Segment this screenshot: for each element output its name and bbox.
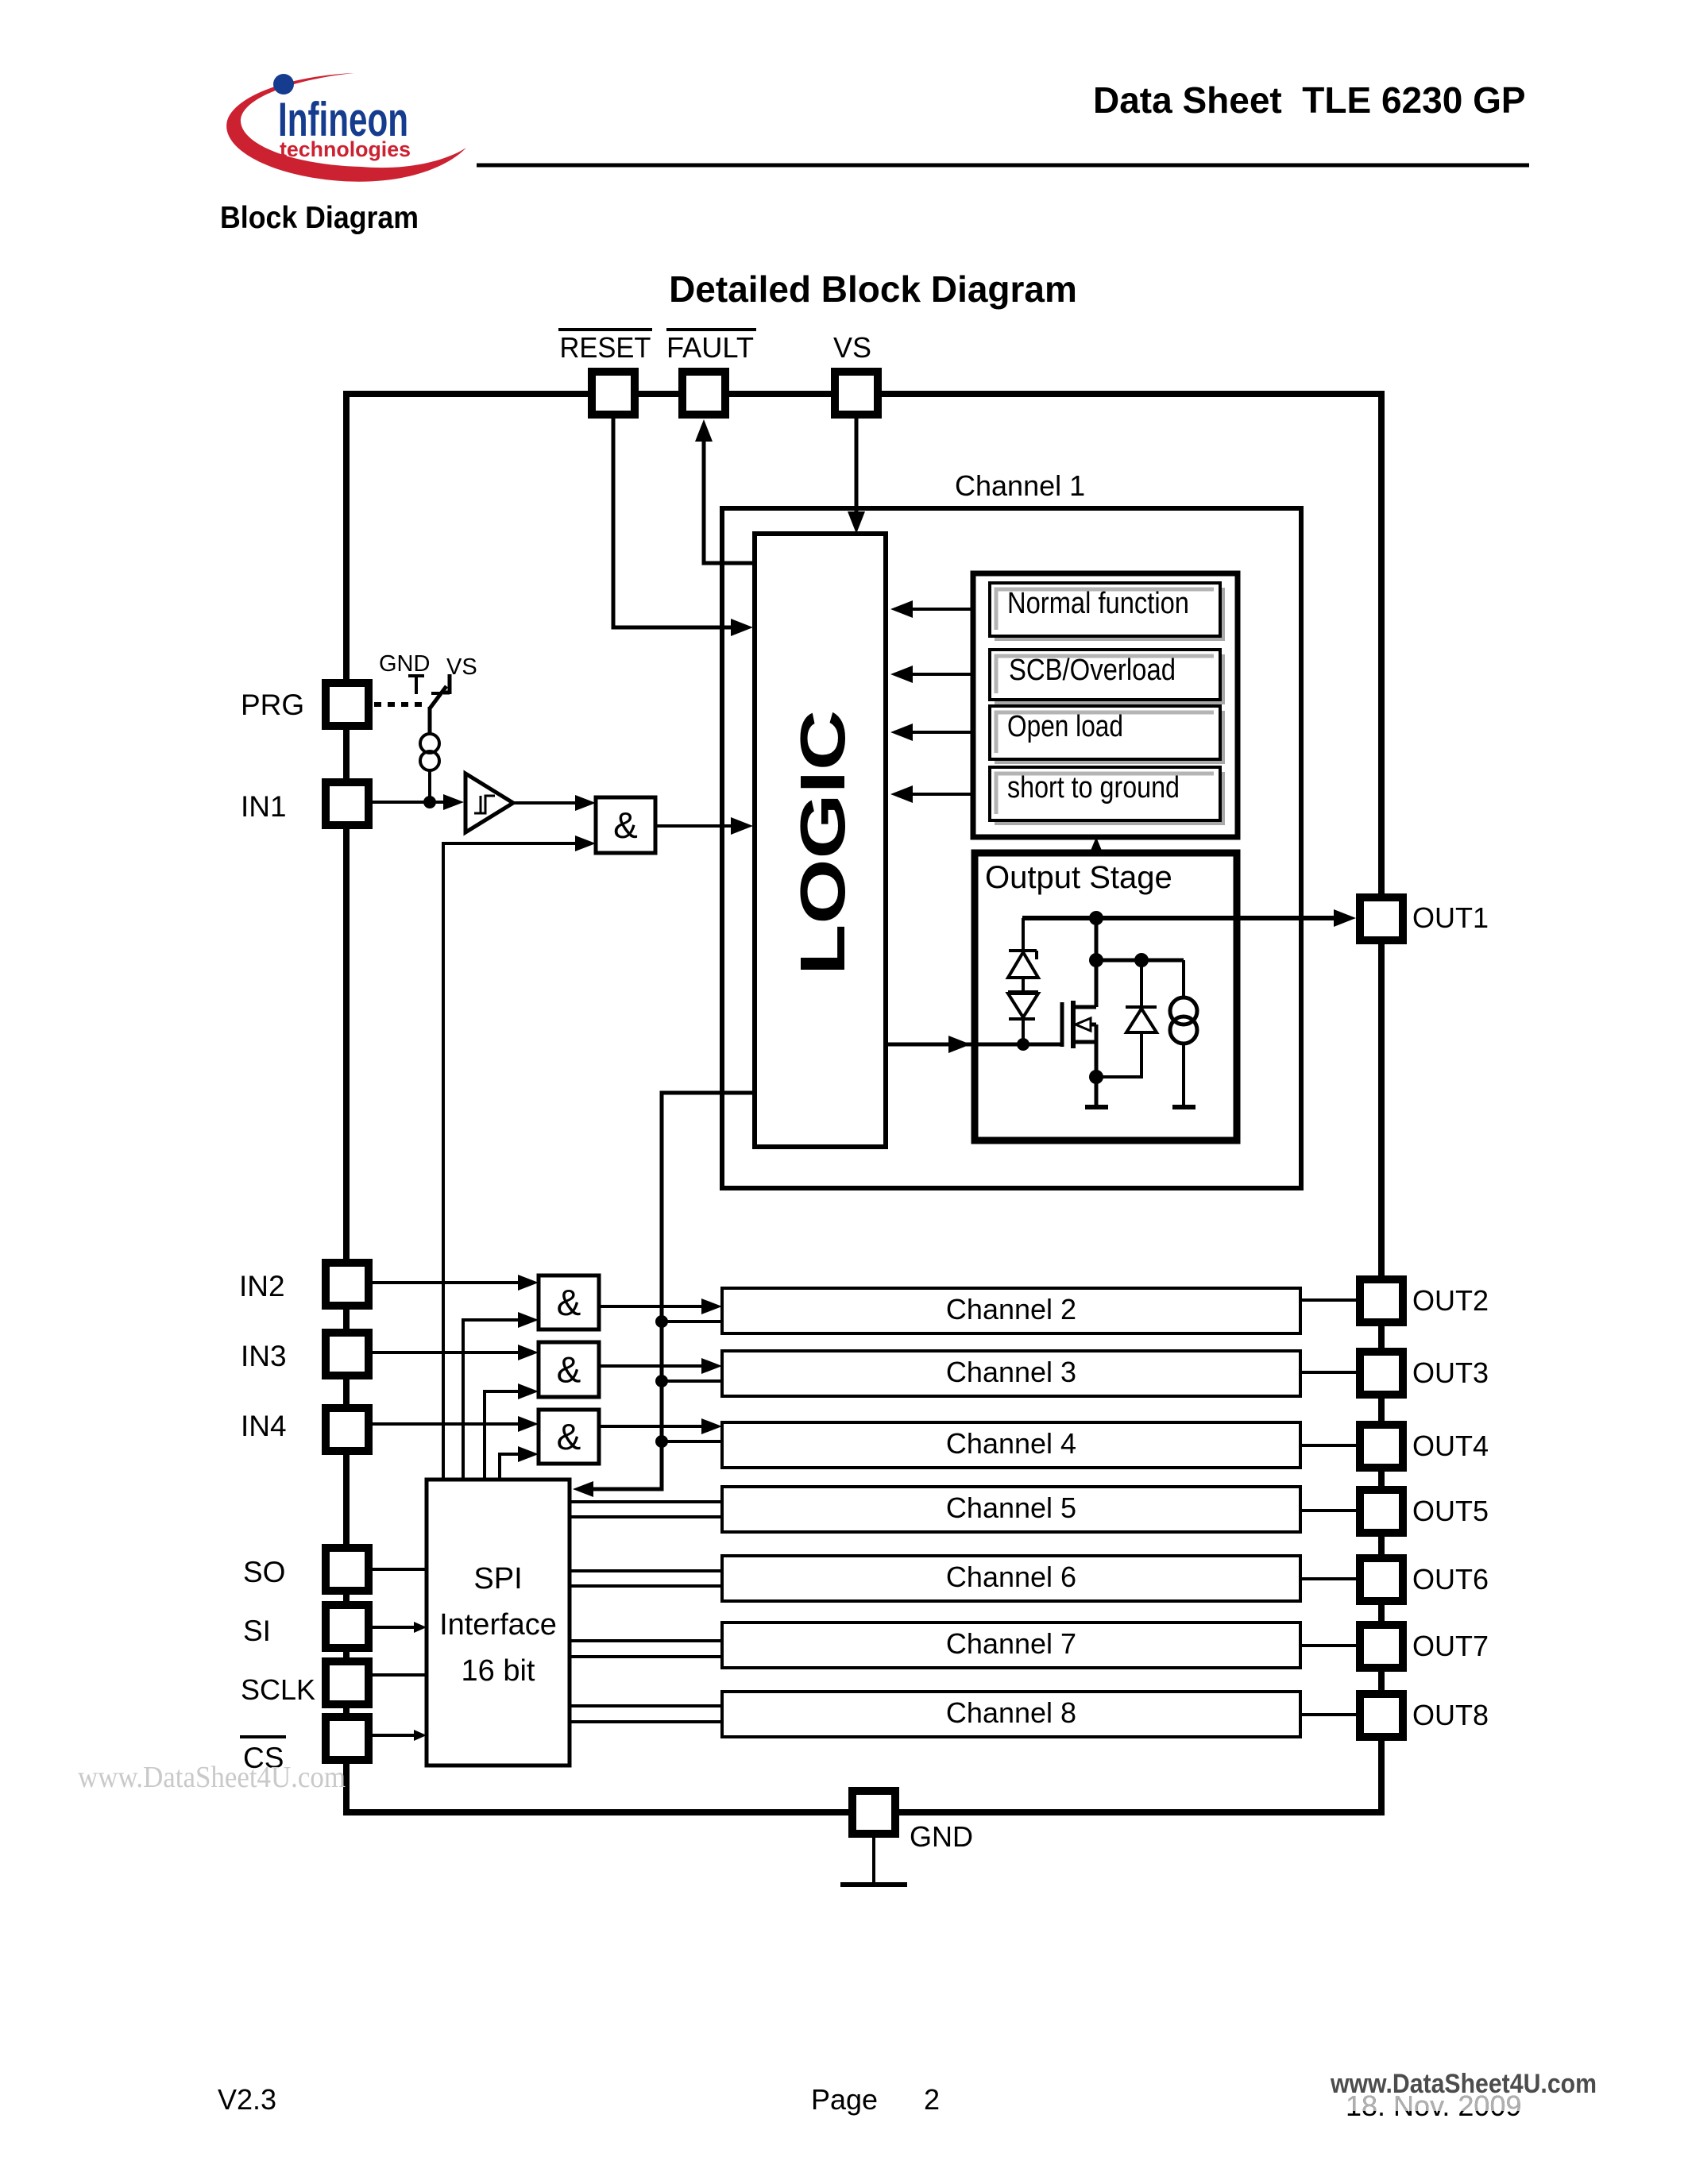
ground at current source I2	[1172, 1105, 1196, 1109]
svg-text:Detailed Block Diagram: Detailed Block Diagram	[669, 268, 1077, 310]
wire current source to ground	[1182, 1044, 1185, 1107]
pin SI	[326, 1605, 369, 1648]
Infineon logo dot	[273, 74, 294, 95]
Infineon logo swoosh	[226, 73, 466, 182]
wire SPI to Channel 8 upper	[570, 1704, 722, 1707]
svg-text:Page: Page	[811, 2083, 878, 2116]
svg-text:Block Diagram: Block Diagram	[220, 201, 419, 235]
svg-text:OUT8: OUT8	[1412, 1699, 1489, 1731]
wire diag to Channel 3	[662, 1379, 722, 1383]
wire SPI to Channel 6 lower	[570, 1584, 722, 1588]
junction rail drain	[1089, 911, 1103, 925]
svg-text:Channel 5: Channel 5	[946, 1491, 1076, 1524]
wire gate G1 to LOGIC	[655, 824, 744, 828]
junction gate zener	[1017, 1038, 1029, 1051]
svg-text:Open load: Open load	[1007, 710, 1123, 743]
pin IN4	[326, 1408, 369, 1451]
svg-text:SCB/Overload: SCB/Overload	[1009, 654, 1176, 687]
wire IN1 pin to schmitt buffer	[373, 801, 451, 804]
wire zener branch	[1022, 918, 1025, 951]
ground symbol	[840, 1882, 907, 1887]
svg-text:&: &	[557, 1416, 581, 1457]
pin SCLK	[326, 1661, 369, 1704]
wire diag to Channel 2	[662, 1320, 722, 1323]
pin PRG	[326, 683, 369, 726]
svg-text:www.DataSheet4U.com: www.DataSheet4U.com	[78, 1761, 346, 1794]
pin OUT3	[1360, 1352, 1403, 1395]
block Channel 8	[722, 1692, 1300, 1737]
wire schmitt buffer to gate G1	[513, 801, 586, 805]
wire status Open load to LOGIC	[913, 731, 973, 734]
wire Channel 3 to OUT3	[1300, 1371, 1356, 1374]
transistor Q1 gate bar	[1060, 1002, 1064, 1047]
wire gate G4 to Channel 4	[599, 1425, 711, 1428]
pin OUT1	[1360, 897, 1403, 940]
svg-text:16 bit: 16 bit	[462, 1654, 535, 1688]
block Output Stage	[975, 853, 1237, 1140]
ground at MOSFET source	[1085, 1105, 1108, 1109]
block Channel 1	[722, 508, 1301, 1188]
wire LOGIC to FAULT pin	[704, 429, 755, 563]
wire CS pin to SPI	[371, 1734, 416, 1737]
wire PRG dashed to switch	[374, 702, 427, 707]
wire zener to gate node	[1022, 1019, 1025, 1044]
wire Channel 7 to OUT7	[1300, 1644, 1356, 1647]
svg-text:GND: GND	[379, 651, 430, 677]
wire LOGIC to MOSFET gate	[886, 1043, 1061, 1047]
svg-text:SCLK: SCLK	[241, 1673, 315, 1706]
wire SO pin to SPI	[371, 1568, 427, 1571]
svg-text:Channel 1: Channel 1	[955, 469, 1085, 502]
transistor Q1 channel bar	[1071, 1001, 1076, 1048]
junction drain branch	[1089, 953, 1103, 967]
block LOGIC U1	[755, 534, 886, 1147]
junction diag ch2	[655, 1315, 668, 1328]
block Channel 3	[722, 1351, 1300, 1396]
wire SPI to gate G4 lower input	[500, 1454, 527, 1480]
block Channel 4	[722, 1422, 1300, 1468]
status Open load	[995, 711, 1225, 764]
svg-text:IN3: IN3	[241, 1340, 287, 1372]
status SCB/Overload	[995, 654, 1225, 704]
wire SPI to Channel 5 lower	[570, 1515, 722, 1518]
svg-text:OUT5: OUT5	[1412, 1495, 1489, 1527]
pin IN1	[326, 782, 369, 825]
svg-text:technologies: technologies	[280, 137, 411, 161]
wire status to output stage arrow	[1095, 848, 1099, 853]
pin OUT6	[1360, 1558, 1403, 1601]
wire IN3 pin to gate G3	[373, 1351, 527, 1354]
switch S1 blade	[430, 686, 446, 708]
pin VS	[835, 372, 878, 415]
wire SPI to Channel 7 upper	[570, 1639, 722, 1642]
svg-text:SI: SI	[243, 1615, 271, 1647]
svg-text:VS: VS	[833, 331, 871, 364]
svg-text:Channel 3: Channel 3	[946, 1356, 1076, 1388]
wire source	[1095, 1024, 1099, 1107]
svg-text:Output Stage: Output Stage	[985, 860, 1172, 895]
svg-text:SPI: SPI	[473, 1562, 522, 1596]
wire Channel 2 to OUT2	[1300, 1298, 1356, 1302]
status short to ground	[995, 772, 1225, 825]
svg-text:&: &	[557, 1282, 581, 1323]
block Channel 7	[722, 1623, 1300, 1668]
wire drain	[1095, 918, 1099, 1007]
svg-text:OUT6: OUT6	[1412, 1563, 1489, 1596]
AND gate G1	[596, 797, 655, 853]
svg-text:OUT7: OUT7	[1412, 1630, 1489, 1662]
svg-text:Channel 4: Channel 4	[946, 1427, 1076, 1460]
wire Channel 6 to OUT6	[1300, 1577, 1356, 1580]
wire SI pin to SPI	[371, 1626, 416, 1629]
wire status SCB/Overload to LOGIC	[913, 673, 973, 676]
net diagnosis bus vertical	[592, 1093, 753, 1489]
svg-text:GND: GND	[910, 1820, 973, 1853]
pin OUT4	[1360, 1425, 1403, 1468]
AND gate G3	[539, 1342, 599, 1397]
pin SO	[326, 1548, 369, 1591]
wire VS pin to LOGIC	[855, 418, 859, 516]
wire between zeners	[1022, 978, 1025, 992]
svg-text:V2.3: V2.3	[218, 2083, 276, 2116]
pin OUT7	[1360, 1625, 1403, 1668]
pin CS	[326, 1717, 369, 1760]
wire SPI to gate G2 lower input	[463, 1320, 527, 1480]
pin RESET	[592, 372, 635, 415]
svg-text:VS: VS	[446, 654, 477, 680]
svg-text:short to ground: short to ground	[1007, 771, 1180, 805]
wire SPI to Channel 8 lower	[570, 1720, 722, 1723]
wire current source to IN1 net	[428, 770, 431, 802]
wire Channel 4 to OUT4	[1300, 1444, 1356, 1447]
wire status short to ground to LOGIC	[913, 793, 973, 796]
svg-text:SO: SO	[243, 1556, 285, 1588]
junction source node	[1089, 1070, 1103, 1084]
AND gate G4	[539, 1410, 599, 1464]
pin OUT5	[1360, 1490, 1403, 1533]
pin OUT2	[1360, 1279, 1403, 1322]
zener diode D2	[1008, 990, 1038, 994]
svg-text:LOGIC: LOGIC	[786, 710, 858, 975]
wire GND pin to ground	[872, 1838, 875, 1885]
freewheel diode D3	[1126, 1005, 1157, 1009]
transistor Q1 source stub	[1073, 1040, 1096, 1044]
svg-text:OUT2: OUT2	[1412, 1284, 1489, 1317]
svg-text:&: &	[557, 1349, 581, 1391]
junction IN1 node	[423, 796, 436, 808]
schmitt trigger buffer B1	[465, 774, 513, 832]
junction diode branch	[1134, 953, 1149, 967]
wire output rail to OUT1	[1022, 916, 1338, 920]
wire SCLK pin to SPI	[371, 1673, 427, 1677]
svg-text:OUT1: OUT1	[1412, 901, 1489, 934]
svg-text:Normal function: Normal function	[1007, 587, 1189, 620]
wire IN2 pin to gate G2	[373, 1281, 527, 1284]
wire to current source I2	[1182, 960, 1185, 997]
svg-text:Channel 7: Channel 7	[946, 1627, 1076, 1660]
svg-text:Channel 8: Channel 8	[946, 1696, 1076, 1729]
zener diode D1	[1009, 949, 1037, 952]
block Channel 5	[722, 1487, 1300, 1532]
pin GND	[852, 1791, 895, 1834]
current source I1	[420, 734, 439, 753]
svg-text:PRG: PRG	[241, 689, 304, 721]
pin OUT8	[1360, 1694, 1403, 1737]
svg-text:IN1: IN1	[241, 790, 287, 823]
transistor Q1 body arrow	[1085, 1023, 1096, 1027]
junction diag ch3	[655, 1375, 668, 1387]
wire SPI to Channel 7 lower	[570, 1655, 722, 1658]
header rule	[477, 164, 1529, 168]
wire Channel 8 to OUT8	[1300, 1713, 1356, 1716]
svg-text:IN2: IN2	[239, 1270, 285, 1302]
wire SPI to gate G3 lower input	[485, 1391, 527, 1480]
wire RESET pin to LOGIC	[613, 418, 745, 627]
wire SPI to gate G1 lower input	[443, 843, 585, 1480]
wire SPI to Channel 5 upper	[570, 1500, 722, 1503]
pin FAULT	[682, 372, 725, 415]
wire drain branch	[1096, 959, 1184, 963]
AND gate G2	[539, 1275, 599, 1329]
wire status Normal function to LOGIC	[913, 608, 973, 611]
svg-text:Channel 6: Channel 6	[946, 1561, 1076, 1593]
wire gate G3 to Channel 3	[599, 1364, 711, 1368]
switch S1 GND contact	[408, 674, 424, 677]
wire freewheel diode to source node	[1096, 1032, 1141, 1077]
svg-text:Data Sheet TLE 6230 GP: Data Sheet TLE 6230 GP	[1093, 79, 1526, 121]
svg-text:FAULT: FAULT	[666, 331, 754, 364]
svg-text:IN4: IN4	[241, 1410, 287, 1442]
block status register	[973, 573, 1238, 837]
block SPI Interface 16 bit	[427, 1480, 570, 1765]
block Channel 2	[722, 1288, 1300, 1333]
wire SPI to Channel 6 upper	[570, 1569, 722, 1572]
junction diag ch4	[655, 1435, 668, 1448]
pin IN3	[326, 1333, 369, 1376]
status Normal function	[995, 588, 1225, 641]
svg-text:Interface: Interface	[439, 1608, 557, 1642]
svg-text:RESET: RESET	[560, 331, 651, 364]
block Channel 6	[722, 1556, 1300, 1601]
pin IN2	[326, 1263, 369, 1306]
switch S1 VS contact	[448, 674, 452, 694]
svg-text:OUT3: OUT3	[1412, 1356, 1489, 1389]
wire switch to current source	[428, 707, 432, 734]
svg-text:2: 2	[924, 2083, 940, 2116]
wire Channel 5 to OUT5	[1300, 1509, 1356, 1512]
svg-text:&: &	[613, 805, 638, 846]
transistor Q1 drain stub	[1073, 1005, 1096, 1009]
chip boundary TLE6230	[346, 394, 1381, 1812]
svg-text:Channel 2: Channel 2	[946, 1293, 1076, 1325]
current source I2	[1170, 997, 1197, 1024]
wire gate G2 to Channel 2	[599, 1305, 711, 1308]
svg-text:OUT4: OUT4	[1412, 1430, 1489, 1462]
wire IN4 pin to gate G4	[373, 1422, 527, 1426]
wire diag to Channel 4	[662, 1440, 722, 1443]
wire to freewheel diode	[1140, 960, 1143, 1007]
